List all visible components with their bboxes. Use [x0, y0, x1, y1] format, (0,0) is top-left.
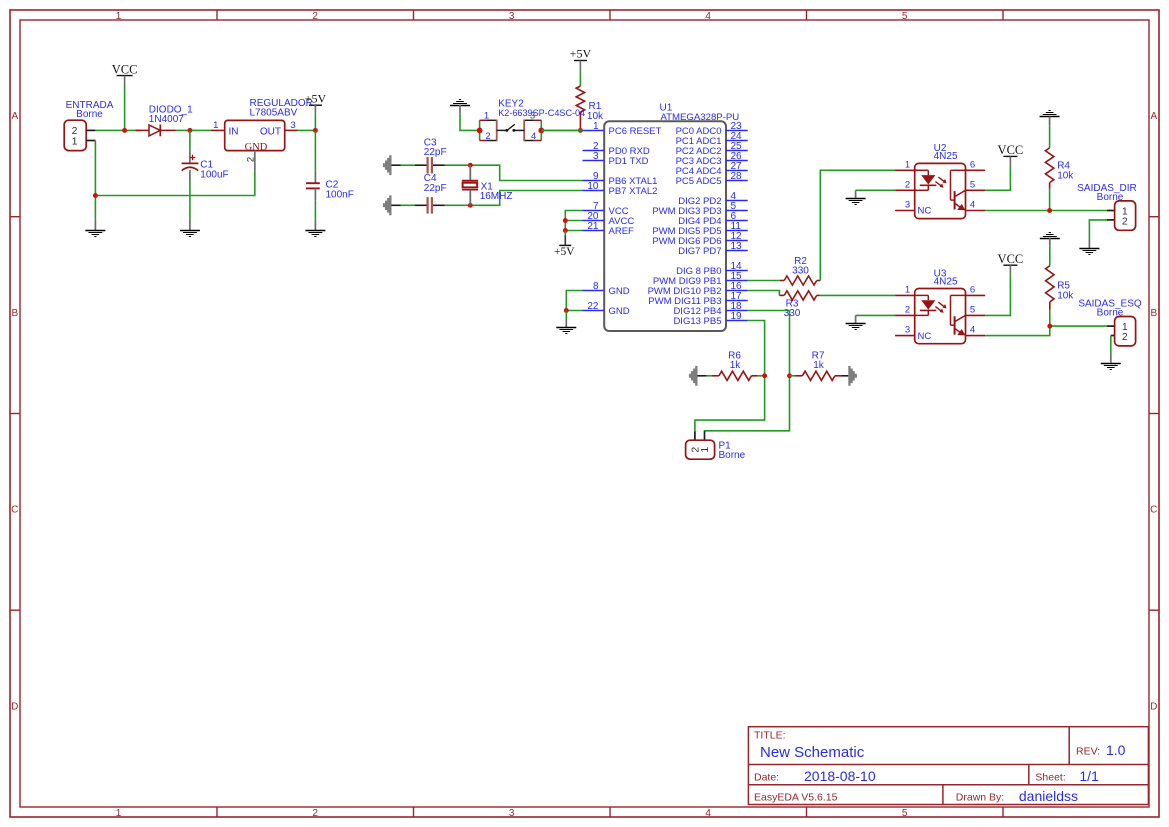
svg-text:2: 2	[312, 11, 318, 22]
ground (U1 GND)	[556, 320, 576, 334]
pin 27 PC4 ADC4	[726, 170, 748, 172]
wire VCC to U2 pin5	[985, 167, 1010, 190]
inverted ground (KEY2)	[450, 100, 470, 114]
wire R3 to U3 pin1	[820, 294, 895, 296]
wire +5V to R1	[579, 73, 581, 87]
svg-text:1: 1	[213, 120, 218, 131]
pin 6 DIG4 PD4	[726, 220, 748, 222]
wire pin15 to R2	[748, 280, 780, 282]
svg-text:5: 5	[970, 304, 975, 315]
svg-text:1: 1	[905, 159, 910, 170]
svg-text:Borne: Borne	[1097, 192, 1124, 203]
net +5V (below AREF)	[564, 231, 566, 236]
wire KEY2 to R1/U1 pin1	[541, 129, 582, 131]
svg-text:16MHZ: 16MHZ	[480, 191, 513, 202]
svg-text:10: 10	[587, 181, 599, 192]
svg-text:1: 1	[484, 111, 489, 122]
optocoupler U2 4N25	[895, 143, 985, 218]
diode DIODO_1 1N4007	[136, 104, 194, 136]
net label VCC (U2)	[998, 143, 1024, 167]
svg-text:GND: GND	[245, 142, 268, 153]
pin 15 PWM DIG9 PB1	[726, 280, 748, 282]
junction diode/C1 node	[187, 128, 192, 133]
wire to C3	[401, 164, 416, 166]
connector ENTRADA (Borne)	[64, 100, 114, 151]
svg-text:330: 330	[792, 265, 809, 276]
capacitor C1 100uF	[182, 130, 229, 180]
svg-text:A: A	[1150, 111, 1157, 122]
svg-text:1.0: 1.0	[1106, 742, 1126, 758]
wire U2 pin4 to SAIDAS_DIR	[985, 210, 1107, 212]
svg-text:3: 3	[905, 325, 910, 336]
wire ENTRADA pin1 down	[94, 141, 96, 220]
regulator REGULADOR L7805ABV	[211, 98, 313, 171]
arrow ground (R7 right)	[842, 366, 857, 386]
svg-text:10k: 10k	[1057, 290, 1074, 301]
svg-text:6: 6	[970, 159, 975, 170]
svg-text:VCC: VCC	[998, 143, 1024, 157]
pin 20 AVCC	[583, 220, 605, 222]
ground (C2)	[305, 220, 325, 237]
junction X1 top	[468, 163, 473, 168]
svg-text:10k: 10k	[587, 111, 604, 122]
pin 13 DIG7 PD7	[726, 250, 748, 252]
svg-text:VCC: VCC	[112, 63, 138, 77]
resistor R5 10k	[1046, 266, 1075, 310]
net label +5V (regulator output)	[305, 92, 327, 116]
svg-text:OUT: OUT	[260, 126, 281, 137]
inverted ground (R4 top)	[1040, 111, 1060, 126]
wire +5V to node	[314, 115, 316, 130]
svg-text:EasyEDA V5.6.15: EasyEDA V5.6.15	[754, 791, 838, 803]
svg-text:+5V: +5V	[554, 246, 575, 258]
svg-text:NC: NC	[918, 206, 932, 217]
op IC U1 ATMEGA328P-PU	[583, 103, 748, 331]
net +5V (R1 top)	[570, 47, 592, 73]
svg-text:19: 19	[731, 311, 743, 322]
svg-text:100uF: 100uF	[200, 169, 228, 180]
svg-text:22pF: 22pF	[424, 183, 447, 194]
svg-text:6: 6	[970, 284, 975, 295]
svg-text:2: 2	[905, 304, 910, 315]
svg-text:2: 2	[485, 131, 490, 142]
svg-text:Borne: Borne	[1097, 308, 1124, 319]
crystal X1 16MHZ	[462, 165, 513, 205]
svg-text:22: 22	[587, 301, 599, 312]
pin 4 DIG2 PD2	[726, 200, 748, 202]
pin 9 PB6 XTAL1	[583, 180, 605, 182]
svg-text:DIG7 PD7: DIG7 PD7	[678, 246, 721, 257]
svg-text:3: 3	[593, 151, 599, 162]
svg-text:Borne: Borne	[76, 109, 103, 120]
svg-text:1k: 1k	[730, 360, 742, 371]
ground (U2 pin2)	[846, 190, 866, 204]
pin 11 PWM DIG5 PD5	[726, 230, 748, 232]
pin 21 AREF	[583, 230, 605, 232]
resistor R1 10k	[576, 86, 604, 130]
wire ground to R4	[1049, 125, 1051, 148]
svg-text:1: 1	[699, 447, 711, 453]
svg-text:3: 3	[905, 200, 910, 211]
wire ground bus	[95, 171, 254, 196]
svg-text:NC: NC	[918, 331, 932, 342]
pin 8 GND	[583, 290, 605, 292]
wire U3 pin2 to ground	[856, 314, 896, 316]
wire C4 to X1 node and U1 pin10	[445, 204, 471, 206]
wire R5 to pin4 net	[1049, 310, 1051, 327]
svg-text:330: 330	[784, 308, 801, 319]
svg-text:1: 1	[116, 11, 122, 22]
svg-text:C: C	[11, 505, 18, 516]
wire SAIDAS_DIR pin2 to ground	[1089, 220, 1107, 241]
svg-text:21: 21	[587, 221, 599, 232]
ground (ENTRADA pin1)	[85, 220, 105, 237]
svg-text:Date:: Date:	[754, 771, 779, 783]
junction X1 bottom	[468, 203, 473, 208]
svg-text:D: D	[11, 701, 18, 712]
pin 10 PB7 XTAL2	[583, 190, 605, 192]
svg-text:5: 5	[902, 11, 908, 22]
wire R6 to pin19 net	[757, 375, 765, 377]
resistor R2 330	[780, 256, 821, 285]
pin 1 PC6 RESET	[583, 130, 605, 132]
svg-text:Borne: Borne	[719, 450, 746, 461]
svg-text:28: 28	[731, 171, 743, 182]
pin 16 PWM DIG10 PB2	[726, 290, 748, 292]
svg-text:Sheet:: Sheet:	[1035, 771, 1065, 783]
svg-text:2: 2	[312, 808, 318, 819]
svg-text:PB7 XTAL2: PB7 XTAL2	[609, 186, 658, 197]
svg-text:2: 2	[1122, 331, 1128, 343]
svg-text:4N25: 4N25	[934, 276, 958, 287]
resistor R6 1k	[707, 351, 757, 381]
svg-text:2: 2	[1122, 215, 1128, 227]
junction R1 bottom	[578, 128, 583, 133]
pin 28 PC5 ADC5	[726, 180, 748, 182]
pin 24 PC1 ADC1	[726, 140, 748, 142]
pin 23 PC0 ADC0	[726, 130, 748, 132]
svg-text:1k: 1k	[813, 360, 825, 371]
wire ground to KEY2 pin2	[460, 113, 480, 130]
ground (SAIDAS_DIR)	[1079, 241, 1099, 255]
svg-text:5: 5	[902, 808, 908, 819]
svg-text:danieldss: danieldss	[1019, 788, 1078, 804]
svg-text:2: 2	[905, 179, 910, 190]
wire ground to R5	[1049, 245, 1051, 266]
wire diode to regulator node	[176, 129, 211, 131]
svg-text:C: C	[1150, 505, 1157, 516]
arrow ground (C4 left)	[383, 195, 401, 215]
svg-text:GND: GND	[609, 306, 630, 317]
svg-text:4: 4	[705, 808, 711, 819]
svg-text:5: 5	[970, 179, 975, 190]
wires GND pins 8 & 22	[566, 291, 582, 311]
wire regulator OUT to +5V node	[298, 129, 316, 131]
svg-text:PC6 RESET: PC6 RESET	[609, 126, 662, 137]
svg-text:22pF: 22pF	[424, 147, 447, 158]
svg-text:100nF: 100nF	[326, 189, 354, 200]
svg-text:DIG13 PB5: DIG13 PB5	[673, 316, 721, 327]
svg-text:1: 1	[905, 284, 910, 295]
junction VCC/ENTRADA node	[122, 128, 127, 133]
inverted ground (R5 top)	[1040, 233, 1060, 246]
wire to C4	[401, 204, 416, 206]
wire VCC to node	[124, 86, 126, 131]
svg-text:3: 3	[509, 808, 515, 819]
svg-text:Drawn By:: Drawn By:	[956, 791, 1004, 803]
svg-text:A: A	[11, 111, 18, 122]
connector P1 (Borne)	[686, 431, 746, 461]
pin 7 VCC	[583, 210, 605, 212]
wire R2 to U2 pin1	[820, 170, 895, 280]
svg-text:2018-08-10: 2018-08-10	[804, 768, 876, 784]
svg-text:1: 1	[593, 121, 599, 132]
svg-text:+5V: +5V	[570, 47, 592, 61]
svg-text:REV:: REV:	[1076, 746, 1100, 758]
svg-text:VCC: VCC	[998, 252, 1024, 266]
svg-text:GND: GND	[609, 286, 630, 297]
arrow ground (C3 left)	[383, 155, 401, 175]
junction R7 left	[787, 373, 792, 378]
pin 18 DIG12 PB4	[726, 310, 748, 312]
junction regulator output node	[313, 128, 318, 133]
wire pin18 to P1 pin1	[705, 311, 790, 432]
ground (U3 pin2)	[846, 315, 866, 329]
svg-text:PC5 ADC5: PC5 ADC5	[676, 176, 722, 187]
svg-text:13: 13	[731, 241, 743, 252]
svg-text:4N25: 4N25	[934, 151, 958, 162]
pin 19 DIG13 PB5	[726, 320, 748, 322]
pin 3 PD1 TXD	[583, 160, 605, 162]
svg-text:4: 4	[705, 11, 711, 22]
svg-text:1/1: 1/1	[1079, 768, 1099, 784]
wire U2 pin2 to ground	[856, 189, 896, 191]
arrow ground (R6 left)	[689, 366, 707, 386]
wire pin19 to P1 pin2	[695, 321, 765, 432]
resistor R7 1k	[790, 351, 842, 381]
wire C1 to ground bus	[189, 181, 191, 220]
pin 25 PC2 ADC2	[726, 150, 748, 152]
ground (C1)	[180, 220, 200, 237]
net label VCC	[112, 63, 138, 86]
svg-text:4: 4	[970, 200, 975, 211]
wire VCC to U3 pin5	[985, 276, 1010, 316]
svg-text:K2-6639SP-C4SC-04: K2-6639SP-C4SC-04	[498, 108, 586, 119]
wire pin16 to R3	[748, 291, 780, 296]
svg-text:1: 1	[72, 136, 78, 148]
svg-text:PD1 TXD: PD1 TXD	[609, 156, 649, 167]
wires VCC/AVCC/AREF	[565, 211, 582, 231]
svg-text:4: 4	[970, 325, 975, 336]
svg-text:1: 1	[116, 808, 122, 819]
pin 14 DIG 8 PB0	[726, 270, 748, 272]
wire SAIDAS_ESQ pin2 to ground	[1110, 336, 1112, 354]
pin 12 PWM DIG6 PD6	[726, 240, 748, 242]
pin 5 PWM DIG3 PD3	[726, 210, 748, 212]
capacitor C4 22pF	[415, 173, 447, 213]
svg-text:8: 8	[593, 281, 599, 292]
optocoupler U3 4N25	[895, 268, 985, 343]
svg-text:1N4007: 1N4007	[149, 114, 184, 125]
svg-text:IN: IN	[229, 126, 239, 137]
junction bus left	[93, 193, 98, 198]
svg-text:D: D	[1150, 701, 1157, 712]
svg-text:B: B	[11, 308, 18, 319]
pin 17 PWM DIG11 PB3	[726, 300, 748, 302]
svg-text:B: B	[1150, 308, 1157, 319]
resistor R3 330	[779, 291, 819, 319]
svg-text:3: 3	[290, 120, 295, 131]
wire C3 to X1 node and U1 pin9	[445, 164, 471, 166]
wire C2 to ground	[314, 200, 316, 220]
net label VCC (U3)	[998, 252, 1024, 276]
svg-text:TITLE:: TITLE:	[754, 730, 786, 742]
pin 2 PD0 RXD	[583, 150, 605, 152]
svg-text:3: 3	[530, 111, 535, 122]
capacitor C3 22pF	[415, 137, 447, 173]
svg-text:AREF: AREF	[609, 226, 635, 237]
ground (SAIDAS_ESQ)	[1101, 354, 1121, 370]
pin 26 PC3 ADC3	[726, 160, 748, 162]
switch KEY2 K2-6639SP-C4SC-04	[477, 98, 586, 142]
pin 22 GND	[583, 310, 605, 312]
svg-text:4: 4	[531, 131, 536, 142]
wire ENTRADA pin2 to diode	[95, 129, 139, 131]
resistor R4 10k	[1045, 148, 1074, 189]
svg-text:+5V: +5V	[305, 92, 327, 106]
svg-text:10k: 10k	[1057, 170, 1074, 181]
svg-text:ATMEGA328P-PU: ATMEGA328P-PU	[661, 112, 740, 123]
capacitor C2 100nF	[306, 130, 354, 200]
connector SAIDAS_ESQ (Borne)	[1078, 299, 1142, 346]
wire U1 pin1	[541, 129, 582, 131]
wire U3 pin4 to SAIDAS_ESQ	[985, 326, 1107, 336]
connector SAIDAS_DIR (Borne)	[1077, 183, 1136, 230]
svg-text:L7805ABV: L7805ABV	[250, 108, 298, 119]
title block	[748, 727, 1148, 805]
svg-text:New Schematic: New Schematic	[760, 744, 865, 761]
svg-text:3: 3	[509, 11, 515, 22]
wire R4 to pin4 net	[1049, 189, 1051, 211]
